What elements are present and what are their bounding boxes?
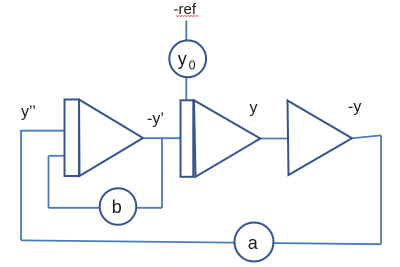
svg-text:0: 0 xyxy=(189,59,196,73)
svg-text:y: y xyxy=(250,100,258,117)
svg-text:y: y xyxy=(178,49,187,69)
svg-text:-y: -y xyxy=(348,99,361,116)
svg-text:y’’: y’’ xyxy=(21,104,36,121)
svg-text:a: a xyxy=(248,233,259,253)
svg-text:b: b xyxy=(112,197,122,217)
svg-text:-y’: -y’ xyxy=(147,111,164,128)
